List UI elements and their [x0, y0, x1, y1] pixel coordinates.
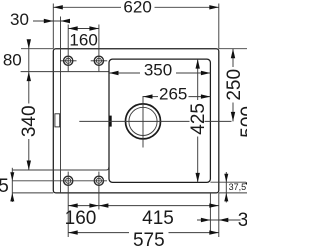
extension sink top edge right: [219, 48, 247, 50]
dimension 425: [197, 59, 199, 182]
drain inner circle: [129, 107, 157, 135]
dimension 265: [143, 96, 210, 98]
top ledge line: [21, 71, 109, 73]
svg-text:620: 620: [123, 0, 151, 17]
faucet hole top-left: [60, 56, 77, 65]
extension sink bottom right: [219, 192, 247, 194]
extension line sink right edge up: [218, 4, 220, 49]
extension hole lines down: [67, 172, 69, 237]
faucet hole top-right: [91, 56, 108, 65]
extension bowl bottom right: [210, 181, 246, 183]
extension bowl right edge down: [209, 193, 211, 232]
svg-text:265: 265: [159, 85, 187, 104]
extension sink right edge down: [218, 193, 220, 237]
extension line rim up: [60, 17, 62, 49]
dimension 30: [33, 20, 70, 22]
extension hole lines up: [67, 25, 69, 72]
svg-text:160: 160: [65, 208, 97, 229]
dimension 80 / 340 vertical line: [28, 41, 30, 171]
bottom ledge line: [13, 169, 106, 171]
dimension 620: [53, 6, 219, 8]
svg-text:500: 500: [238, 106, 247, 138]
svg-text:575: 575: [133, 230, 165, 247]
dimension 350: [109, 72, 210, 74]
bowl outline: [109, 59, 210, 182]
faucet hole bottom-right: [94, 176, 103, 185]
svg-text:415: 415: [142, 208, 174, 229]
dimension 37,5: [225, 172, 227, 203]
svg-text:250: 250: [224, 69, 245, 101]
dimension 250: [232, 49, 234, 122]
dimension 575: [68, 232, 219, 234]
dimension 500: [238, 106, 259, 138]
extension sink top edge left: [21, 48, 53, 50]
dimension 35 right bottom: [197, 219, 241, 221]
bottom holes centerline: [12, 180, 107, 182]
dimension 160 top: [68, 28, 99, 30]
svg-text:37,5: 37,5: [229, 182, 247, 192]
svg-text:160: 160: [69, 30, 97, 49]
dimension 160 bottom and 415 chained: [68, 205, 219, 207]
svg-text:425: 425: [188, 103, 209, 135]
label 340 rotated: [19, 105, 40, 137]
svg-text:5: 5: [0, 176, 9, 197]
drain vertical centerline: [142, 96, 144, 148]
sink outer outline: [53, 49, 219, 193]
overflow slot mark on bowl left wall: [109, 116, 111, 127]
svg-text:80: 80: [3, 51, 22, 70]
svg-text:3: 3: [238, 210, 247, 231]
svg-text:340: 340: [19, 105, 40, 137]
extension line sink left edge up: [52, 4, 54, 49]
overflow tab on left rim: [55, 114, 60, 127]
drain outer circle: [126, 104, 161, 139]
left rim line: [60, 49, 62, 193]
faucet hole bottom-left: [64, 176, 73, 185]
extension sink bottom left: [12, 192, 53, 194]
drain horizontal centerline: [79, 120, 189, 122]
dimension 5 left: [11, 168, 13, 202]
svg-text:30: 30: [10, 10, 29, 29]
svg-text:350: 350: [144, 60, 172, 79]
